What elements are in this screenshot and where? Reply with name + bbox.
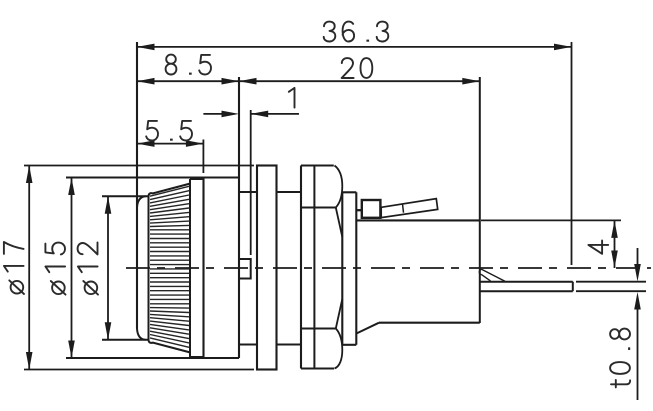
nut body bottom edge + φ15 extension line <box>66 357 239 359</box>
dim 36.3 left arrow <box>137 44 155 51</box>
dim 5.5 right arrow <box>186 140 204 147</box>
rear ring bottom edge <box>190 356 204 358</box>
dim text 8.5 <box>166 55 211 75</box>
terminal strip bottom edge <box>480 290 573 292</box>
dim line φ12 <box>107 196 109 340</box>
front lip top edge + φ12 extension line <box>102 195 149 197</box>
dim φ15 top arrow <box>68 178 75 196</box>
dim φ17 bottom arrow <box>26 352 33 370</box>
t0.8 upper arrow (pointing down) <box>634 264 641 282</box>
rear ring right edge x=190 <box>189 179 191 357</box>
dim text 20 <box>342 58 373 78</box>
dim text φ15 <box>45 243 65 295</box>
solder lug crease line <box>403 204 404 213</box>
dim text 5.5 <box>146 121 192 141</box>
terminal strip end edge <box>572 282 574 292</box>
knurl hatch lines <box>150 186 189 196</box>
dim 20 right arrow <box>462 78 480 85</box>
dim 1 left arrow (outside, pointing right) <box>222 111 240 118</box>
rear flange bottom edge <box>342 344 356 346</box>
t0.8 top extension line <box>576 281 646 283</box>
rear flange top edge <box>342 191 356 193</box>
dim 1 left leader <box>203 113 224 115</box>
dim text 1 <box>289 88 295 108</box>
centerline (axis) <box>126 267 651 269</box>
dim 1 right leader <box>251 113 299 115</box>
mid cylinder top edge <box>277 191 302 193</box>
front lip bottom edge + φ12 extension line <box>102 339 149 341</box>
dim 4 extension line y=220.4 <box>481 219 621 221</box>
shell upper taper line <box>336 208 343 238</box>
dim 8.5 left arrow <box>137 78 155 85</box>
dim text 4 <box>588 241 608 254</box>
mid cylinder bottom edge <box>277 344 302 346</box>
panel washer (φ17) <box>257 166 277 370</box>
dim line φ15 <box>71 178 73 359</box>
dim 20 left arrow <box>239 78 257 85</box>
dim line φ17 <box>28 166 30 370</box>
dim line 8.5 and 20 (chained) <box>137 80 480 82</box>
dim φ17 top arrow <box>26 166 33 184</box>
rear flange left edge <box>341 192 343 344</box>
front lip (φ12) front face + left extension line x=137 <box>136 42 138 329</box>
neck bottom edge <box>239 344 257 346</box>
rear body top edge <box>356 219 480 221</box>
nut body rear face x=239 + extension up <box>238 77 240 358</box>
rear body bottom edge <box>379 322 480 324</box>
t0.8 lower arrow leader <box>637 307 639 401</box>
rear body cone bottom line <box>356 323 379 334</box>
solder lug blade <box>381 199 438 218</box>
dim 4 top arrow <box>611 220 618 238</box>
shell lower chamfer arc <box>335 329 343 369</box>
shell upper waist line <box>301 207 336 209</box>
nut body (φ15) front face x=203.5 <box>202 178 204 359</box>
front lip bottom corner arc <box>137 329 146 340</box>
t0.8 bottom extension line <box>576 290 646 292</box>
front lip top corner arc <box>137 196 146 207</box>
dim 4 bottom arrow <box>611 251 618 269</box>
dim text φ17 <box>4 242 24 294</box>
t0.8 upper arrow leader <box>637 248 639 267</box>
rear ring top edge <box>190 178 204 180</box>
dim 8.5 right arrow <box>222 78 240 85</box>
center lead lower diagonal <box>482 275 491 281</box>
shell lower taper line <box>336 299 343 329</box>
dim 1 right arrow (outside, pointing left) <box>251 111 269 118</box>
lug stub line <box>356 209 362 211</box>
lug clamp block <box>362 200 381 218</box>
shell bottom edge <box>301 367 334 369</box>
nut body top edge + φ15 extension line <box>66 177 239 179</box>
dim 5.5 extension line x=203.4 <box>202 140 204 174</box>
dim φ12 top arrow <box>105 196 112 214</box>
dim 5.5 left arrow <box>137 140 155 147</box>
dim 1 extension line x=250.7 <box>250 110 252 255</box>
dim text t0.8 <box>610 329 630 388</box>
φ17 bottom extension line <box>24 369 254 371</box>
φ17 top extension line <box>24 165 254 167</box>
dim line 36.3 <box>137 46 572 48</box>
dim text 36.3 <box>324 22 389 42</box>
terminal strip top edge <box>480 281 573 283</box>
knurled ring outline (chamfered drum) <box>149 184 191 353</box>
dim 36.3 right arrow <box>554 44 572 51</box>
shell top edge <box>301 164 334 166</box>
neck top edge <box>239 191 257 193</box>
t0.8 lower arrow (pointing up) <box>634 292 641 310</box>
rear flange right edge <box>355 192 357 344</box>
center lead rounded end <box>479 269 481 274</box>
center lead upper diagonal <box>482 269 506 281</box>
shell left edge x=301 <box>300 166 302 369</box>
shell lower waist line <box>301 328 336 330</box>
dim φ12 bottom arrow <box>105 322 112 340</box>
rear body rear face x=479.8 + extension up <box>479 77 481 323</box>
shell upper chamfer arc <box>335 166 343 208</box>
dim φ15 bottom arrow <box>68 341 75 359</box>
dim line 4 <box>614 220 616 268</box>
shell facet line x=314.4 <box>313 166 315 369</box>
dim text φ12 <box>78 242 98 294</box>
dim line 5.5 <box>137 143 203 145</box>
right extension line x=571.5 <box>571 42 573 265</box>
center contact box <box>239 259 251 279</box>
